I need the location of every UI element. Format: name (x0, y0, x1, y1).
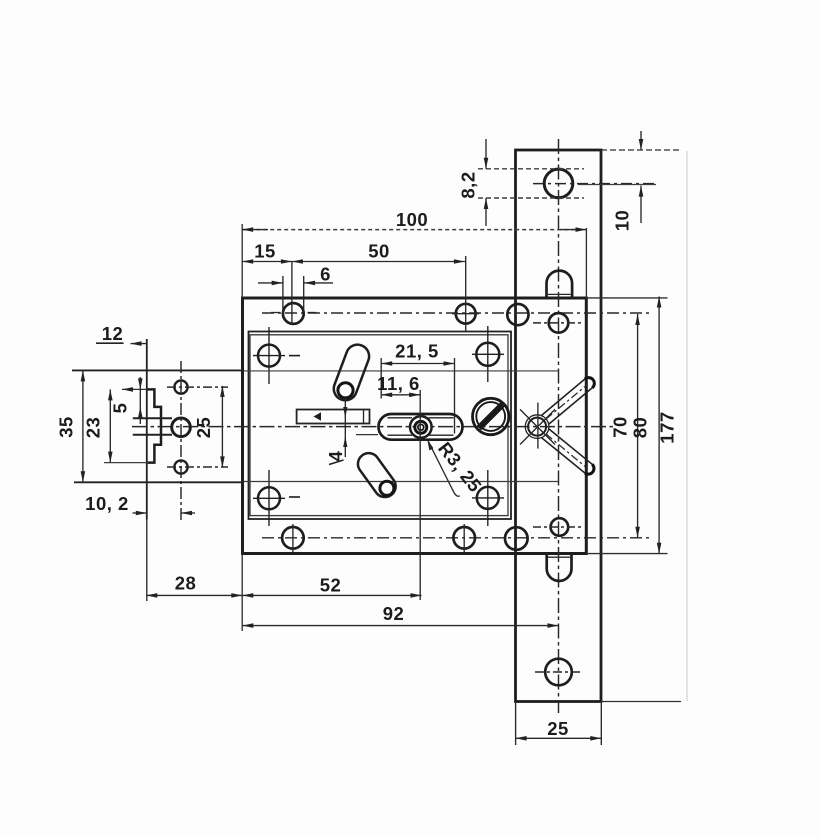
top bell pin (547, 271, 573, 298)
svg-text:R3, 25: R3, 25 (434, 438, 486, 496)
dimension 70 (rotated) (610, 314, 640, 538)
svg-text:11, 6: 11, 6 (377, 373, 420, 394)
lock case outer body (243, 298, 587, 554)
dimension 4 (rotated) with teardrop arrows (325, 398, 347, 465)
bottom bell pin (547, 554, 572, 581)
dimension 6 (258, 264, 333, 286)
key cylinder (473, 398, 509, 434)
key bit central boss (410, 416, 432, 438)
bottom band hole 3 (505, 527, 528, 550)
inner plate corner screw BL (253, 470, 300, 526)
follower hub (528, 418, 546, 436)
svg-text:177: 177 (657, 411, 678, 443)
svg-text:25: 25 (193, 417, 214, 439)
case right edge extension up (585, 228, 587, 298)
svg-text:80: 80 (630, 417, 651, 439)
top hole-row centerline (262, 312, 652, 314)
svg-text:25: 25 (547, 718, 569, 739)
lever 1 pivot (338, 383, 353, 398)
svg-text:70: 70 (610, 416, 631, 438)
left bracket bottom edge (74, 481, 244, 483)
top band hole 3 (507, 304, 528, 325)
dimension 25 bottom (516, 703, 602, 745)
case left edge extension up (241, 224, 243, 298)
svg-text:52: 52 (320, 575, 342, 596)
faceplate vertical centerline (558, 139, 560, 713)
inner plate corner screw TL (253, 327, 300, 384)
svg-text:21, 5: 21, 5 (395, 341, 439, 362)
bracket stepped profile (147, 389, 161, 462)
bracket hole middle (172, 418, 191, 437)
dimension 50 (292, 241, 465, 264)
top band hole 2 (456, 304, 476, 324)
internal chamber bottom line (244, 481, 559, 483)
svg-text:6: 6 (320, 264, 331, 285)
bracket main vertical edge (146, 339, 148, 520)
lever capsule 2 (358, 453, 396, 497)
svg-text:35: 35 (56, 416, 77, 438)
svg-text:8,2: 8,2 (458, 171, 479, 198)
faceplate bottom edge extension (601, 701, 681, 703)
bottom hole-row centerline (262, 537, 652, 539)
dimension 21,5 (381, 341, 454, 434)
lever 2 pivot (380, 481, 394, 495)
case top edge extension (586, 297, 667, 299)
faceplate lower screw hole (551, 518, 569, 536)
svg-text:100: 100 (396, 209, 428, 230)
bottom band hole 2 (453, 527, 475, 549)
internal chamber top line (244, 370, 559, 372)
latch stub lines (133, 417, 172, 419)
deadbolt rectangle (297, 410, 370, 424)
main horizontal centerline (132, 426, 614, 428)
dimension 11,6 (377, 373, 420, 600)
dimension 177 (rotated, faint line) (657, 151, 688, 701)
dimension 80 (rotated) (630, 297, 662, 554)
case left edge extension down (241, 554, 243, 632)
dimension 35 (rotated) (56, 370, 86, 482)
bottom band hole 1 (282, 527, 304, 549)
follower arm lower (542, 429, 594, 474)
leader R3,25 (rotated) (427, 438, 486, 496)
deadbolt direction arrow (314, 412, 322, 420)
dimension 12 with leader (96, 323, 147, 346)
svg-text:10: 10 (612, 210, 633, 232)
svg-text:23: 23 (83, 417, 104, 439)
dimension 23 (rotated) (83, 387, 149, 463)
case bottom edge extension (586, 553, 667, 555)
svg-text:10, 2: 10, 2 (85, 493, 129, 514)
dimension 15 (242, 241, 292, 264)
plate top hole crossline (533, 183, 656, 185)
dimension 10,2 (85, 493, 195, 515)
bracket hole bottom (174, 460, 187, 473)
top band hole 1 (283, 303, 304, 324)
bracket hole top (174, 381, 187, 394)
faceplate top hole (544, 169, 573, 198)
lever capsule 1 (334, 345, 369, 401)
follower arm upper (541, 378, 594, 425)
key bit capsule (379, 414, 463, 440)
faceplate top edge extension (601, 149, 680, 151)
spring line near bolt (356, 434, 378, 436)
dimension 28 (146, 520, 242, 602)
dimension 52 (242, 575, 421, 598)
dimension 10 (vertical, rotated) (578, 131, 656, 231)
svg-text:50: 50 (368, 241, 390, 262)
faceplate bottom hole (545, 659, 572, 686)
left bracket top edge (72, 369, 244, 371)
dimension 100 (242, 209, 586, 232)
inner plate corner screw TR (472, 326, 504, 382)
dimension 5 (rotated) (110, 377, 143, 424)
svg-text:92: 92 (383, 603, 405, 624)
inner plate corner screw BR (472, 470, 504, 526)
dimension 8,2 (vertical, rotated) (458, 139, 585, 226)
inner plate (double outline) (249, 332, 512, 520)
svg-text:15: 15 (254, 241, 276, 262)
bracket vertical centerline (180, 361, 182, 520)
svg-text:12: 12 (102, 323, 124, 344)
faceplate (forend strip) (516, 150, 602, 702)
faceplate upper screw hole (549, 313, 569, 333)
svg-text:5: 5 (110, 403, 131, 414)
dimension 92 (242, 603, 558, 628)
svg-text:28: 28 (175, 573, 197, 594)
dimension 25 left (rotated) (193, 386, 225, 468)
